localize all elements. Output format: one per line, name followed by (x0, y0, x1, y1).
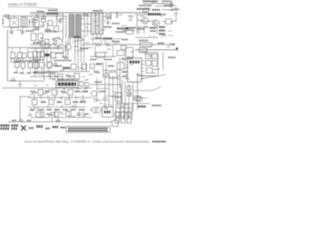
label cluster R9 (117, 28, 129, 30)
label conn5 (46, 128, 51, 130)
wire vertical x58 (56, 13, 58, 21)
marks bl3 (45, 91, 50, 93)
transistor Q8 (91, 91, 97, 97)
label x104 y26 (104, 26, 112, 28)
squiggle R11 (104, 43, 111, 46)
wire y48.5 (30, 48, 62, 50)
box bl4 (52, 90, 57, 96)
transformer T1 shade (69, 14, 81, 38)
label above T2 (93, 10, 103, 12)
resistor R20 box (143, 9, 149, 12)
capacitor C3 (58, 18, 62, 23)
inductor L4 box (140, 43, 152, 47)
transistor Q9 pair (92, 107, 98, 113)
label tr extra1 (139, 5, 152, 7)
marks blrow3g (79, 109, 85, 111)
squiggle R14 (93, 71, 100, 74)
box dark x45 (45, 54, 50, 57)
box row3 a (33, 52, 38, 58)
marks x45 y30 (45, 29, 51, 31)
label dark col2 (159, 30, 165, 32)
marks x122 y76 (122, 76, 127, 78)
label T3 tops (14, 60, 40, 62)
box bw6 (54, 112, 59, 117)
label Q1 designator (48, 9, 58, 11)
box T3r1 (15, 63, 19, 68)
box grid3 (134, 96, 140, 100)
transistor Q5 (142, 17, 149, 24)
wire verticals x97-110 (97, 76, 109, 107)
label dark x103 y38 (103, 38, 112, 40)
resistor R30 (11, 53, 16, 59)
label y41 x112 (112, 41, 120, 43)
wire T3 top stubs (12, 48, 42, 53)
box x115 y92 (116, 93, 122, 97)
wire diag upper (140, 75, 166, 80)
box grid2 (127, 92, 131, 96)
wire verticals x114 x118 (113, 76, 122, 107)
wire verticals x139 x144 (139, 26, 144, 34)
squiggle bl5 (60, 91, 67, 94)
marks bl14 (73, 101, 78, 103)
box T3r3b (35, 63, 39, 69)
wire y38.8 (90, 38, 122, 40)
squiggle bl1 (30, 91, 37, 94)
label conn2b (12, 128, 18, 130)
resistor R4 (38, 34, 43, 41)
label x112 y23 (112, 23, 120, 25)
box U5r5 (147, 68, 153, 73)
wire y107 partial (28, 106, 86, 108)
wire row stubs a (34, 95, 83, 100)
marks x56-62 (56, 65, 62, 67)
label stack2 (150, 30, 156, 32)
resistor R31 (18, 53, 23, 59)
caption page mark (152, 141, 166, 143)
box row4 a (33, 62, 38, 68)
wire tie y40 (75, 41, 84, 51)
box br3 (127, 118, 131, 123)
marks bw5 (84, 113, 89, 115)
transistor Q3 inner (67, 45, 70, 50)
transistor Q7 (104, 73, 108, 77)
label T3row2b (20, 72, 24, 74)
wire y122 center (62, 121, 112, 123)
box U3 (96, 53, 105, 58)
box row5 a (50, 74, 55, 79)
marks x122 y58 (122, 58, 133, 60)
marks wire2 (27, 120, 31, 122)
switch X mark (21, 126, 26, 131)
wire AC top (2, 15, 44, 17)
marks x83 y15 (83, 14, 89, 16)
marks blrow3c (47, 109, 52, 111)
label right of x163 (168, 57, 176, 59)
wire stub caps (12, 16, 32, 29)
wire vertical x120 (119, 60, 121, 84)
box R33 (37, 52, 42, 58)
transistor Q3 (65, 44, 71, 50)
wire y84.5 (90, 84, 120, 86)
diode D9 box (166, 19, 172, 24)
box U6 (102, 107, 113, 117)
bridge rectifier BR1 (34, 18, 39, 28)
label T3row2c (27, 72, 31, 74)
box row5 b (58, 74, 63, 80)
wire y37.5 (135, 37, 158, 39)
wire x120 y62-88 (119, 84, 121, 88)
marks bl8 (82, 91, 88, 93)
label conn3 (29, 127, 35, 129)
box R17 dark (36, 112, 44, 117)
wire out +5V (135, 49, 178, 51)
box grid1 (127, 86, 131, 90)
tick x52 (51, 119, 53, 123)
wire y90.5 diag (133, 87, 161, 91)
connector table text2 (68, 130, 108, 132)
box T3r2 (21, 63, 25, 69)
box br2b (121, 112, 125, 117)
transistor Q2 big (54, 38, 62, 46)
IC U1 TL494 box (56, 81, 78, 88)
marks wire1 (12, 120, 16, 122)
transformer T1 left winding (69, 14, 74, 38)
AC plug J1 (2, 18, 4, 25)
label x108 y66 (108, 65, 114, 67)
diode D6 marks (128, 15, 131, 20)
transistor Q10 (47, 62, 53, 68)
marks x95 y36 (95, 37, 101, 39)
box x82 y64 (82, 64, 87, 69)
transistor Q2 inner (56, 39, 60, 45)
label x80 y48 (80, 48, 88, 50)
box bl9 (32, 100, 37, 105)
value labels top right (140, 1, 178, 24)
label C1 C2 values (26, 30, 34, 32)
transistor Q11 (40, 41, 45, 46)
box br1b (115, 112, 119, 117)
cluster border right (139, 53, 158, 77)
wire row stubs c (41, 111, 83, 118)
marks blrow3f (71, 109, 76, 111)
arrow Q9 (90, 109, 93, 111)
wire right edge x44 (43, 48, 45, 82)
marks bl12 (57, 101, 62, 103)
value labels mid band (36, 65, 135, 86)
box br1 (115, 118, 119, 123)
box br2 (121, 118, 125, 123)
box U5r2 (152, 54, 158, 59)
wire main top bus (30, 12, 148, 14)
wire y71.5 (45, 71, 90, 73)
marks blrow3d (55, 109, 60, 111)
wire y76.5 (30, 76, 62, 78)
resistor R1b (42, 17, 46, 22)
IC U5 pins left (125, 61, 128, 79)
label dark col3 (159, 33, 165, 35)
inductor L1 choke (21, 17, 27, 27)
label row4 (33, 72, 56, 74)
box x112 y121 (112, 121, 118, 127)
wire x44 drop (43, 13, 46, 27)
IC U5 pins right (142, 61, 145, 79)
resistor R2 (54, 26, 59, 32)
capacitor CY pair (29, 18, 34, 26)
label Q1 value box (47, 13, 58, 15)
capacitor CX1 marks (11, 20, 17, 26)
capacitor C20 (11, 59, 21, 63)
squiggle bw1 (46, 113, 53, 116)
label dark x74 (74, 36, 80, 38)
diode bw4 (28, 113, 32, 116)
connector table box (66, 127, 110, 133)
box R32 (28, 52, 33, 58)
transformer T2 shade (92, 14, 103, 34)
wire y103.5 (116, 103, 150, 105)
resistor R3 (31, 34, 36, 41)
wire y44.5 left (30, 44, 56, 46)
capacitor C2 bulk (21, 29, 25, 35)
label row3 (33, 59, 44, 61)
label dark x96 y63 (96, 63, 102, 65)
wire Q2 drop (58, 36, 68, 56)
label dark y14 (148, 13, 161, 15)
label small x137 (137, 28, 145, 30)
box row5 c (74, 74, 80, 80)
IC U1 label (58, 82, 76, 85)
wire drops row4 (35, 68, 49, 77)
marks blrow3b (38, 109, 44, 111)
wire out3 arrow (162, 9, 174, 11)
wire y14.5 (135, 14, 166, 16)
wire vertical x163 (162, 52, 164, 70)
value labels supervisor (122, 53, 160, 79)
box right of U1b (85, 83, 89, 87)
wire verticals x63 x66 low (63, 41, 66, 58)
diode Dw (19, 119, 23, 122)
wire x47 x51 drop (47, 50, 51, 62)
transistor Q9b (95, 107, 101, 113)
label row2 (137, 8, 150, 10)
wire y98 (134, 97, 148, 99)
wire AC bottom (2, 26, 44, 28)
value labels top band (7, 15, 148, 32)
wire verticals x84 x87 (85, 13, 88, 36)
value labels right column (137, 20, 175, 47)
wire x95 x113 drop (95, 45, 113, 57)
box x71 (71, 64, 76, 70)
wire y97.5 (28, 97, 92, 99)
label row2b (152, 9, 160, 11)
wire y70.5 x103 (103, 70, 118, 72)
marks blrow3a (30, 109, 35, 111)
transistor Q4 (39, 62, 45, 68)
wire second bus (44, 15, 67, 17)
connector table text (68, 127, 108, 129)
label conn1b (1, 128, 10, 130)
box br3b (127, 112, 131, 117)
value labels tl494 band (34, 77, 88, 94)
resistor R1 (48, 21, 53, 26)
label under Q2 (56, 52, 64, 54)
diode Dw2 (56, 119, 60, 122)
marks x95 y82 (95, 81, 102, 83)
wire y56.5 (90, 56, 116, 58)
svg-text:Блок питания/Power Man Мод. JY: Блок питания/Power Man Мод. JY-P2002B-JY… (25, 140, 149, 144)
box bl2 (38, 90, 43, 96)
wire out2 (155, 5, 173, 7)
wire x103 x106 (103, 62, 106, 78)
marks bl10 (41, 101, 46, 103)
wire T2 drops (93, 34, 101, 45)
box x50 (51, 53, 56, 59)
wire bottom edge y81 (8, 80, 44, 82)
wire vertical x137 (137, 15, 158, 34)
wire stubs y35 (150, 36, 162, 38)
IC U5 box (128, 58, 142, 82)
marks bottom y58-62 (54, 60, 72, 62)
transistor Q6 inner (155, 21, 158, 26)
transistor Q6 (153, 20, 160, 27)
wire grid verticals (121, 84, 133, 118)
label conn1 (1, 124, 10, 126)
box U6 label (104, 111, 111, 114)
box row3 b (40, 52, 45, 58)
label conn4 (37, 125, 43, 127)
box U5r3 (146, 61, 152, 66)
box R32b (22, 53, 27, 58)
wire bus second top (30, 13, 63, 15)
wire y117.5 (30, 117, 92, 119)
U6 pins top (104, 104, 112, 107)
label y39 x122 (122, 39, 128, 41)
wire vertical x54 (56, 16, 58, 33)
box bl11 (49, 100, 54, 105)
capacitor CX1 box (10, 18, 19, 28)
tick x170 (169, 43, 171, 47)
label far right (152, 105, 161, 107)
wire verticals x78-86 low (78, 62, 86, 72)
marks x122 y70-78 (122, 71, 127, 73)
wire y75.5 (142, 75, 158, 77)
value labels lower band (30, 89, 132, 117)
capacitor bw3 (77, 111, 81, 118)
box left Q2b (45, 45, 49, 49)
capacitor C7 (54, 62, 58, 67)
wire corner (20, 97, 30, 122)
label conn2 (12, 124, 19, 126)
box x117 y50 (117, 51, 125, 56)
inductor L5 box (139, 48, 147, 52)
wire vertical x47 (47, 23, 49, 34)
wire T3 stubs (17, 56, 37, 72)
wire left edge x8 (7, 30, 9, 81)
box bl13 (65, 100, 70, 105)
box bw2 (66, 111, 71, 116)
wire x108 drop (106, 19, 110, 25)
box x126 y30 (126, 30, 133, 35)
wire right links (149, 6, 177, 21)
wire y121.5 (8, 121, 62, 123)
squiggle R10 (94, 43, 101, 46)
label conn7 (61, 127, 66, 129)
wire verticals x75-84 (75, 36, 84, 62)
label dark grid (138, 106, 146, 108)
box bl6 (68, 90, 73, 96)
label +12V (158, 42, 164, 44)
label above box126 (126, 27, 136, 29)
box x109 y72 (109, 72, 117, 78)
label PG (162, 0, 171, 2)
label +5VSB (143, 0, 158, 2)
wire y30 right (122, 30, 135, 32)
marks bl7 (75, 91, 80, 93)
box x136 y97 (136, 97, 142, 101)
marks x90 y58 (90, 59, 97, 61)
wire T1 taps (70, 16, 91, 45)
transformer T2 windings (96, 13, 100, 34)
label cluster R9b (116, 31, 126, 33)
diode D5 (116, 13, 119, 18)
bridge BR1 diodes (35, 20, 38, 28)
diode D12 (11, 78, 16, 81)
wire ties y78 y92 (97, 79, 121, 101)
wire x111 drop (103, 13, 111, 20)
wire top edge y47.5 (8, 47, 62, 49)
node cluster dot (41, 37, 43, 39)
label T3row2d (34, 72, 38, 74)
capacitor C1 bulk (10, 29, 14, 35)
label bridge value (37, 11, 44, 13)
box T3r3 (28, 63, 33, 68)
label T3row2a (14, 72, 18, 74)
marks bl15 (80, 101, 86, 103)
svg-text:схема JY-P2002B: схема JY-P2002B (8, 3, 37, 7)
marks x33 y29 (33, 29, 40, 31)
wire tie y108 y112 (116, 108, 132, 112)
ground sym (18, 81, 22, 86)
label out3 (174, 8, 179, 10)
box x90 y64 (90, 64, 95, 69)
transistor Q5 inner (144, 18, 147, 23)
fuse F1 (5, 15, 9, 17)
box U5r1 (146, 54, 152, 59)
node out dot (176, 47, 178, 49)
wire y44.5 right (82, 44, 135, 46)
IC U1 pins top (58, 79, 76, 82)
wire verticals right x116-132 (116, 104, 132, 120)
transformer T1 right winding (77, 14, 82, 38)
inductor L1 windings (23, 17, 26, 27)
box row4 b (47, 62, 52, 68)
label tr extra2 (164, 4, 175, 6)
label stack1 (150, 27, 156, 29)
wire out1 (143, 3, 173, 5)
box U5r4 (152, 61, 157, 67)
wire vertical x137 low (137, 73, 139, 110)
wire out +12V (135, 44, 175, 46)
IC U5 label (130, 61, 140, 64)
wire vertical x63 x66 (63, 13, 66, 40)
label y40 (139, 40, 148, 42)
cluster x33-44 y36-41 (33, 42, 43, 44)
squiggle R8 (62, 56, 69, 59)
box x117 y62 (117, 63, 124, 70)
wire ground bus (2, 87, 92, 89)
wire row stubs b (34, 105, 76, 109)
marks x104 y58 (104, 59, 112, 61)
box right of U1a (80, 82, 84, 87)
